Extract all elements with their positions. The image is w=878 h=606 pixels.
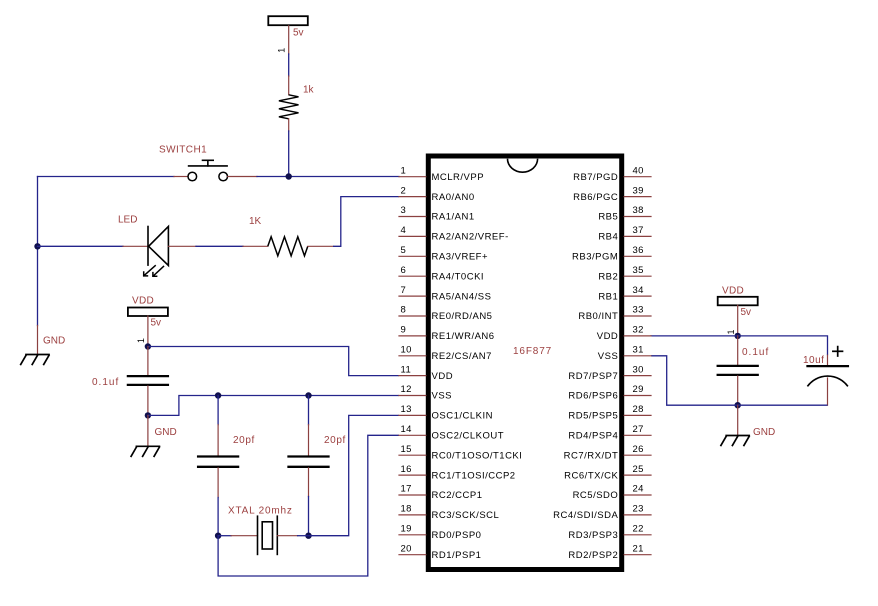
svg-text:1k: 1k <box>303 85 315 96</box>
pin 24 (RC5/SDO) of U1 <box>573 484 651 502</box>
svg-text:18: 18 <box>401 504 412 515</box>
svg-text:12: 12 <box>401 384 412 395</box>
pin segment to middle ground <box>147 415 149 446</box>
pin 1 of VDD rail (left) <box>147 316 149 347</box>
junction C1 bottom / VSS wire <box>145 412 151 418</box>
svg-text:0.1uf: 0.1uf <box>742 347 769 358</box>
wire VDD node to capacitor C5 top <box>738 336 828 355</box>
wire pin 31 of U1 to VSS node (right) <box>651 356 828 405</box>
pin 9 (RE1/WR/AN6) of U1 <box>399 325 495 343</box>
svg-text:RC1/T1OSI/CCP2: RC1/T1OSI/CCP2 <box>432 470 516 481</box>
IC U1 16F877 microcontroller body <box>428 156 621 570</box>
wire resistor R1 to switch node <box>288 131 290 177</box>
wire left rail vertical <box>37 177 39 326</box>
pin 40 (RB7/PGD) of U1 <box>573 165 651 183</box>
wire pin 32 of U1 to VDD node (right) <box>651 335 738 337</box>
pin capacitor C5 bottom <box>827 378 829 405</box>
svg-text:RD7/PSP7: RD7/PSP7 <box>568 371 618 382</box>
svg-text:RD4/PSP4: RD4/PSP4 <box>568 431 618 442</box>
pin resistor R2 left <box>243 245 268 247</box>
svg-text:16: 16 <box>401 464 412 475</box>
svg-text:1K: 1K <box>249 216 262 227</box>
pin 36 (RB3/PGM) of U1 <box>572 245 651 263</box>
svg-text:19: 19 <box>401 524 412 535</box>
wire 5v rail to resistor R1 <box>288 54 290 76</box>
svg-text:24: 24 <box>633 484 644 495</box>
wire LED to resistor R2 <box>196 245 243 247</box>
pin segment to left ground <box>37 326 39 355</box>
svg-text:20pf: 20pf <box>233 435 255 446</box>
pin capacitor C1 bottom <box>147 386 149 415</box>
pin 26 (RC7/RX/DT) of U1 <box>564 444 651 462</box>
pin 3 (RA1/AN1) of U1 <box>399 205 475 223</box>
pin 5 (RA3/VREF+) of U1 <box>399 245 488 263</box>
svg-text:4: 4 <box>401 225 407 236</box>
junction left 20pf cap top <box>215 392 221 398</box>
junction XTAL left <box>215 533 221 539</box>
pin 1 of power symbol (maroon pin segment) <box>288 26 290 54</box>
svg-text:RB4: RB4 <box>598 232 618 243</box>
wire right 20pf top <box>308 396 310 425</box>
pin 27 (RD4/PSP4) of U1 <box>568 424 651 442</box>
svg-text:VSS: VSS <box>432 391 453 402</box>
svg-text:RC3/SCK/SCL: RC3/SCK/SCL <box>432 510 500 521</box>
wire rail to LED <box>38 245 124 247</box>
svg-text:27: 27 <box>633 424 644 435</box>
svg-text:5v: 5v <box>293 28 304 39</box>
svg-text:35: 35 <box>633 265 644 276</box>
pin 22 (RD3/PSP3) of U1 <box>568 524 651 542</box>
svg-text:RB3/PGM: RB3/PGM <box>572 252 618 263</box>
svg-text:30: 30 <box>633 364 644 375</box>
svg-text:23: 23 <box>633 504 644 515</box>
svg-text:2: 2 <box>401 185 407 196</box>
pin 31 (VSS) of U1 <box>598 345 651 363</box>
pin 19 (RD0/PSP0) of U1 <box>399 524 481 542</box>
svg-text:1: 1 <box>136 338 146 343</box>
svg-text:RB2: RB2 <box>598 271 618 282</box>
svg-text:RB6/PGC: RB6/PGC <box>573 192 618 203</box>
svg-text:32: 32 <box>633 325 644 336</box>
svg-text:RD3/PSP3: RD3/PSP3 <box>568 530 618 541</box>
pin 28 (RD5/PSP5) of U1 <box>568 404 651 422</box>
junction switch/resistor node <box>286 173 292 179</box>
svg-text:9: 9 <box>401 325 407 336</box>
pin 1 (MCLR/VPP) of U1 <box>399 165 484 183</box>
pin 13 (OSC1/CLKIN) of U1 <box>399 404 493 422</box>
ground right <box>721 427 775 446</box>
pin 11 (VDD) of U1 <box>399 364 453 382</box>
pin 25 (RC6/TX/CK) of U1 <box>564 464 651 482</box>
svg-text:21: 21 <box>633 543 644 554</box>
svg-text:15: 15 <box>401 444 412 455</box>
svg-text:22: 22 <box>633 524 644 535</box>
svg-text:11: 11 <box>401 364 412 375</box>
pin 1 of VDD rail (right) <box>737 305 739 336</box>
pin capacitor C5 top <box>827 355 829 366</box>
switch SWITCH1 (push button) <box>188 160 228 181</box>
svg-text:VSS: VSS <box>598 351 619 362</box>
wire VDD node to pin 11 of U1 <box>148 347 399 376</box>
wire C2 bottom to XTAL left node <box>217 498 219 536</box>
svg-text:RD5/PSP5: RD5/PSP5 <box>568 411 618 422</box>
junction VDD node (right) <box>735 333 741 339</box>
pin of resistor R1 top <box>288 76 290 95</box>
svg-text:40: 40 <box>633 165 644 176</box>
capacitor C4 0.1uf <box>718 366 758 375</box>
svg-text:GND: GND <box>155 427 177 438</box>
pin capacitor C4 top <box>737 336 739 365</box>
svg-text:RB1: RB1 <box>598 291 618 302</box>
pin crystal X1 left <box>231 535 257 537</box>
pin 18 (RC3/SCK/SCL) of U1 <box>399 504 499 521</box>
power symbol VDD (right) <box>718 297 758 306</box>
wire XTAL left node <box>218 535 231 537</box>
pin 14 (OSC2/CLKOUT) of U1 <box>399 424 504 442</box>
svg-text:RB5: RB5 <box>598 212 618 223</box>
svg-text:31: 31 <box>633 345 644 356</box>
svg-text:RD0/PSP0: RD0/PSP0 <box>432 530 482 541</box>
LED D1 <box>144 226 169 276</box>
svg-text:MCLR/VPP: MCLR/VPP <box>432 172 485 183</box>
svg-text:36: 36 <box>633 245 644 256</box>
wire switch to pin 1 of U1 <box>257 176 399 178</box>
svg-text:RA5/AN4/SS: RA5/AN4/SS <box>432 291 492 302</box>
svg-text:XTAL 20mhz: XTAL 20mhz <box>228 505 293 516</box>
svg-text:6: 6 <box>401 265 407 276</box>
pin 6 (RA4/T0CKI) of U1 <box>399 265 484 283</box>
svg-text:3: 3 <box>401 205 407 216</box>
junction VDD node (left) <box>145 343 151 349</box>
svg-text:10: 10 <box>401 345 412 356</box>
pin of resistor R1 bottom <box>288 119 290 131</box>
capacitor C3 20pf <box>289 457 329 467</box>
pin 38 (RB5) of U1 <box>598 205 651 223</box>
svg-text:RB0/INT: RB0/INT <box>578 311 618 322</box>
wire XTAL right node <box>298 535 309 537</box>
svg-text:RC4/SDI/SDA: RC4/SDI/SDA <box>553 510 618 521</box>
pin 35 (RB2) of U1 <box>598 265 651 283</box>
svg-text:28: 28 <box>633 404 644 415</box>
pin 7 (RA5/AN4/SS) of U1 <box>399 285 491 303</box>
pin resistor R2 right <box>308 245 333 247</box>
pin 15 (RC0/T1OSO/T1CKI) of U1 <box>399 444 522 462</box>
svg-text:RA1/AN1: RA1/AN1 <box>432 212 475 223</box>
ground middle <box>131 427 177 456</box>
svg-text:RC0/T1OSO/T1CKI: RC0/T1OSO/T1CKI <box>432 450 523 461</box>
svg-text:RC6/TX/CK: RC6/TX/CK <box>564 470 618 481</box>
pin 10 (RE2/CS/AN7) of U1 <box>399 345 492 363</box>
pin 2 (RA0/AN0) of U1 <box>399 185 475 203</box>
svg-text:1: 1 <box>726 329 736 334</box>
junction XTAL right <box>305 533 311 539</box>
svg-text:RA4/T0CKI: RA4/T0CKI <box>432 271 485 282</box>
svg-text:RE0/RD/AN5: RE0/RD/AN5 <box>432 311 493 322</box>
svg-text:10uf: 10uf <box>803 355 824 366</box>
svg-text:RA0/AN0: RA0/AN0 <box>432 192 475 203</box>
svg-text:OSC1/CLKIN: OSC1/CLKIN <box>432 411 494 422</box>
crystal X1 <box>258 516 278 554</box>
svg-text:RB7/PGD: RB7/PGD <box>573 172 618 183</box>
svg-text:0.1uf: 0.1uf <box>92 377 119 388</box>
wire C1 bottom to pin 12 of U1 (VSS net) <box>148 396 399 416</box>
pin 30 (RD7/PSP7) of U1 <box>568 364 651 382</box>
junction right 20pf cap top <box>305 392 311 398</box>
wire left rail to switch <box>38 176 175 178</box>
svg-text:26: 26 <box>633 444 644 455</box>
svg-text:7: 7 <box>401 285 407 296</box>
pin 8 (RE0/RD/AN5) of U1 <box>399 305 492 323</box>
svg-text:RC7/RX/DT: RC7/RX/DT <box>564 450 619 461</box>
pin 21 (RD2/PSP2) of U1 <box>568 543 651 561</box>
pin switch right <box>228 176 257 178</box>
svg-text:1: 1 <box>401 165 407 176</box>
pin 23 (RC4/SDI/SDA) of U1 <box>553 504 651 521</box>
pin capacitor C2 bottom <box>217 468 219 498</box>
svg-text:5v: 5v <box>741 307 752 318</box>
wire pin 14 of U1 to XTAL left node <box>218 435 399 576</box>
svg-text:20pf: 20pf <box>324 435 346 446</box>
pin capacitor C4 bottom <box>737 376 739 405</box>
svg-text:25: 25 <box>633 464 644 475</box>
junction VSS node (right) <box>735 402 741 408</box>
pin segment to right ground <box>737 405 739 435</box>
pin 29 (RD6/PSP6) of U1 <box>568 384 651 402</box>
pin 4 (RA2/AN2/VREF-) of U1 <box>399 225 509 243</box>
svg-text:8: 8 <box>401 305 407 316</box>
svg-text:33: 33 <box>633 305 644 316</box>
svg-text:39: 39 <box>633 185 644 196</box>
svg-text:RA3/VREF+: RA3/VREF+ <box>432 252 489 263</box>
pin capacitor C3 top <box>308 425 310 455</box>
svg-text:RD6/PSP6: RD6/PSP6 <box>568 391 618 402</box>
capacitor C2 20pf <box>198 457 238 467</box>
pin LED anode <box>168 245 196 247</box>
pin capacitor C1 top <box>147 347 149 376</box>
svg-text:1: 1 <box>277 48 287 53</box>
pin 37 (RB4) of U1 <box>598 225 651 243</box>
pin capacitor C3 bottom <box>308 468 310 497</box>
svg-text:RE2/CS/AN7: RE2/CS/AN7 <box>432 351 492 362</box>
pin 12 (VSS) of U1 <box>399 384 452 402</box>
pin LED cathode <box>123 245 148 247</box>
pin 20 (RD1/PSP1) of U1 <box>399 543 481 561</box>
svg-text:34: 34 <box>633 285 644 296</box>
wire pin 13 of U1 to XTAL right node <box>309 415 400 535</box>
pin 33 (RB0/INT) of U1 <box>578 305 651 323</box>
power symbol 5v (top) <box>268 16 308 25</box>
pin 17 (RC2/CCP1) of U1 <box>399 484 483 502</box>
pin switch left <box>174 176 188 178</box>
svg-text:13: 13 <box>401 404 412 415</box>
svg-text:RD2/PSP2: RD2/PSP2 <box>568 550 618 561</box>
svg-text:5v: 5v <box>151 318 162 329</box>
svg-text:VDD: VDD <box>722 285 744 296</box>
capacitor C5 10uf (polarized) <box>807 366 848 386</box>
junction LED branch <box>34 243 40 249</box>
svg-text:37: 37 <box>633 225 644 236</box>
svg-text:RC5/SDO: RC5/SDO <box>573 490 619 501</box>
pin 16 (RC1/T1OSI/CCP2) of U1 <box>399 464 516 482</box>
svg-text:GND: GND <box>43 336 65 347</box>
resistor R1 1k (vertical) <box>279 95 299 119</box>
svg-text:5: 5 <box>401 245 407 256</box>
svg-text:VDD: VDD <box>432 371 454 382</box>
resistor R2 1K (horizontal) <box>268 237 308 256</box>
svg-text:OSC2/CLKOUT: OSC2/CLKOUT <box>432 431 505 442</box>
wire resistor R2 to pin 2 of U1 <box>333 197 399 247</box>
capacitor C1 0.1uf <box>128 376 168 385</box>
svg-text:SWITCH1: SWITCH1 <box>159 144 207 155</box>
svg-text:RA2/AN2/VREF-: RA2/AN2/VREF- <box>432 232 509 243</box>
pin 34 (RB1) of U1 <box>598 285 651 303</box>
svg-text:17: 17 <box>401 484 412 495</box>
ground left rail <box>21 336 66 365</box>
svg-text:38: 38 <box>633 205 644 216</box>
svg-text:LED: LED <box>118 215 137 226</box>
pin 39 (RB6/PGC) of U1 <box>573 185 651 203</box>
polarity plus sign of C5 <box>833 347 843 356</box>
pin crystal X1 right <box>277 535 297 537</box>
svg-text:RE1/WR/AN6: RE1/WR/AN6 <box>432 331 495 342</box>
svg-text:VDD: VDD <box>597 331 619 342</box>
svg-text:GND: GND <box>753 427 775 438</box>
svg-text:14: 14 <box>401 424 412 435</box>
pin 32 (VDD) of U1 <box>597 325 651 343</box>
pin capacitor C2 top <box>217 425 219 455</box>
svg-text:29: 29 <box>633 384 644 395</box>
svg-text:16F877: 16F877 <box>513 346 552 357</box>
svg-text:RC2/CCP1: RC2/CCP1 <box>432 490 483 501</box>
svg-text:RD1/PSP1: RD1/PSP1 <box>432 550 482 561</box>
svg-text:20: 20 <box>401 543 412 554</box>
power symbol VDD (left) <box>128 308 168 317</box>
svg-text:VDD: VDD <box>132 295 154 306</box>
wire left 20pf top <box>217 396 219 425</box>
wire C3 bottom to XTAL right node <box>308 497 310 536</box>
